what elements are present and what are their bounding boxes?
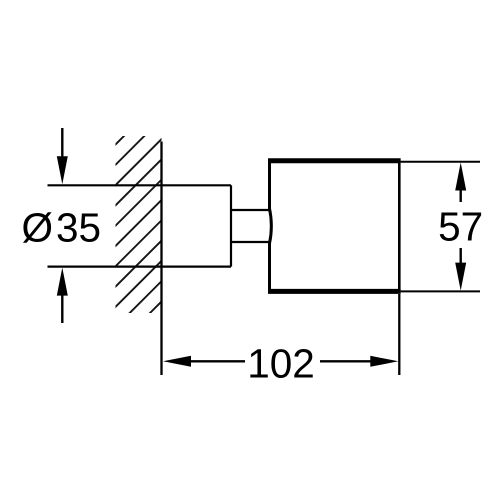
57 dim bottom arrow: [455, 263, 466, 291]
svg-text:57: 57: [438, 203, 483, 249]
57 dim bottom extension line: [401, 290, 480, 292]
neck top line: [231, 209, 269, 211]
diameter 35 dim bottom arrow (outside, pointing up): [57, 268, 68, 296]
102 dim right extension line: [398, 294, 400, 375]
57 dim top arrow: [455, 163, 466, 191]
cup bottom edge (thick): [268, 289, 401, 294]
cup top edge (thick): [268, 158, 401, 163]
wall line (also left extension line of 102 dim): [160, 142, 162, 376]
cylinder bottom outline + left extension line of diameter dim: [48, 266, 232, 268]
svg-text:Ø35: Ø35: [22, 204, 102, 250]
neck bottom line: [231, 241, 269, 243]
cylinder right edge: [230, 185, 232, 266]
diameter 35 dim top arrow (outside, pointing down): [61, 128, 63, 158]
wall hatching: [100, 80, 180, 363]
cylinder top outline + left extension line of diameter dim: [48, 184, 232, 186]
cup right edge: [398, 159, 401, 294]
svg-text:102: 102: [247, 340, 315, 386]
57 dim top extension line: [401, 161, 480, 163]
102 dim line right segment with arrow: [370, 356, 398, 367]
cup left edge with neck-end arc bulge: [270, 159, 272, 294]
102 dim line left segment with arrow: [163, 356, 191, 367]
